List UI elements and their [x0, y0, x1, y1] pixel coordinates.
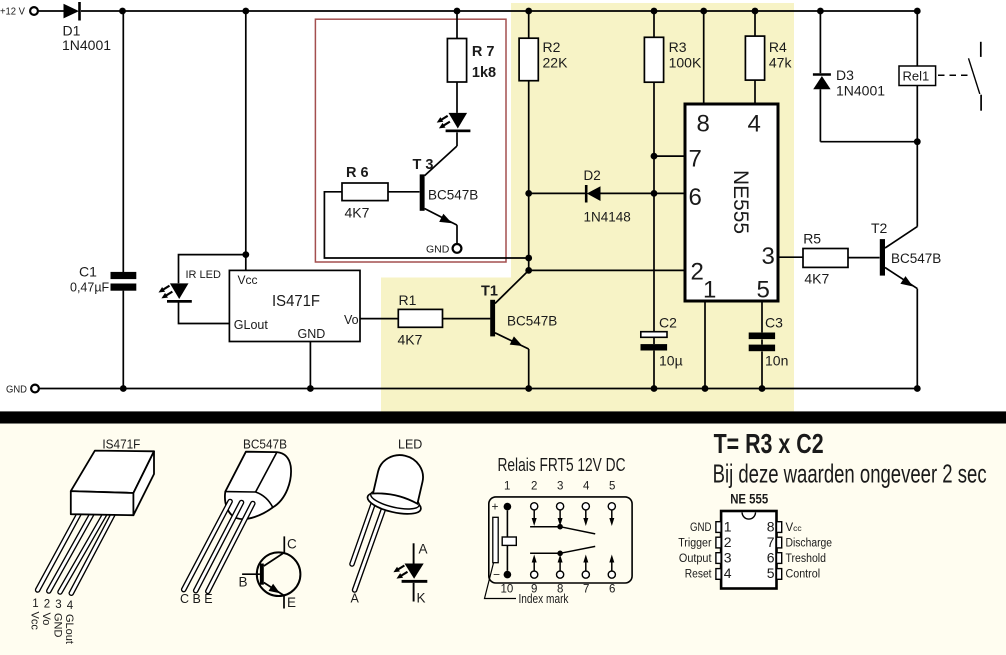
svg-text:4K7: 4K7	[398, 332, 423, 348]
svg-text:Relais FRT5 12V DC: Relais FRT5 12V DC	[498, 455, 626, 475]
svg-text:Treshold: Treshold	[786, 553, 827, 565]
svg-text:Bij deze waarden ongeveer 2 se: Bij deze waarden ongeveer 2 sec	[713, 459, 987, 489]
svg-text:C2: C2	[659, 315, 677, 331]
svg-text:GLout: GLout	[234, 318, 269, 332]
svg-text:C: C	[287, 537, 297, 552]
svg-text:4: 4	[724, 565, 732, 581]
svg-text:BC547B: BC547B	[891, 251, 941, 266]
svg-text:D3: D3	[836, 67, 854, 83]
svg-text:C1: C1	[79, 264, 97, 280]
svg-text:NE 555: NE 555	[730, 491, 768, 507]
svg-text:1: 1	[724, 518, 732, 534]
svg-text:BC547B: BC547B	[507, 314, 557, 329]
svg-text:3: 3	[557, 481, 563, 493]
svg-text:BC547B: BC547B	[428, 188, 478, 203]
svg-text:GND: GND	[6, 384, 27, 395]
svg-text:2: 2	[531, 481, 537, 493]
svg-text:−: −	[493, 568, 500, 582]
svg-text:BC547B: BC547B	[243, 438, 287, 452]
svg-text:Vcc: Vcc	[29, 612, 41, 631]
svg-text:Control: Control	[786, 569, 821, 581]
svg-text:Trigger: Trigger	[678, 538, 711, 550]
svg-text:Vcc: Vcc	[238, 273, 258, 287]
svg-text:3: 3	[55, 599, 61, 611]
svg-text:GND: GND	[426, 244, 450, 256]
svg-text:GND: GND	[52, 613, 64, 638]
svg-text:E: E	[287, 595, 296, 610]
svg-text:5: 5	[757, 277, 770, 304]
svg-text:1N4001: 1N4001	[62, 37, 111, 53]
svg-text:R3: R3	[669, 39, 687, 55]
svg-text:B: B	[239, 575, 248, 590]
svg-text:LED: LED	[398, 438, 422, 452]
svg-text:8: 8	[767, 518, 775, 534]
svg-text:2: 2	[44, 599, 50, 611]
svg-text:7: 7	[689, 146, 702, 173]
svg-text:IR LED: IR LED	[186, 269, 222, 281]
svg-text:R5: R5	[803, 231, 821, 247]
svg-text:NE555: NE555	[729, 170, 752, 234]
svg-text:7: 7	[767, 534, 775, 550]
svg-text:4: 4	[67, 600, 74, 612]
svg-text:1: 1	[504, 481, 510, 493]
svg-text:6: 6	[689, 184, 702, 211]
svg-text:22K: 22K	[543, 55, 569, 71]
svg-text:0,47µF: 0,47µF	[70, 281, 110, 295]
svg-text:10: 10	[501, 584, 514, 596]
svg-text:Index mark: Index mark	[519, 592, 570, 606]
svg-text:1k8: 1k8	[472, 65, 496, 81]
svg-text:R 6: R 6	[346, 165, 369, 181]
svg-text:4: 4	[748, 111, 761, 138]
svg-text:10µ: 10µ	[659, 353, 683, 369]
svg-text:GLout: GLout	[63, 614, 75, 644]
svg-text:C B E: C B E	[180, 592, 213, 606]
svg-text:8: 8	[697, 111, 710, 138]
svg-text:K: K	[417, 591, 426, 606]
svg-text:10n: 10n	[765, 353, 788, 369]
svg-text:T= R3 x C2: T= R3 x C2	[714, 428, 824, 459]
svg-text:Vcc: Vcc	[786, 522, 803, 534]
svg-text:A: A	[419, 542, 428, 557]
svg-text:100K: 100K	[669, 55, 702, 71]
svg-text:1N4001: 1N4001	[836, 83, 885, 99]
svg-text:Discharge: Discharge	[786, 538, 833, 550]
svg-text:Reset: Reset	[685, 569, 712, 581]
svg-text:Vo: Vo	[344, 313, 359, 327]
svg-text:Output: Output	[679, 553, 712, 565]
svg-text:A: A	[351, 592, 360, 606]
svg-text:GND: GND	[690, 522, 712, 534]
svg-text:R4: R4	[769, 39, 787, 55]
svg-text:+: +	[492, 500, 499, 514]
svg-text:6: 6	[609, 584, 615, 596]
svg-text:3: 3	[724, 549, 732, 565]
svg-text:1: 1	[703, 277, 716, 304]
svg-text:4: 4	[583, 481, 590, 493]
svg-text:R1: R1	[399, 292, 417, 308]
svg-text:R2: R2	[543, 39, 561, 55]
svg-text:T 3: T 3	[413, 157, 434, 173]
svg-text:IS471F: IS471F	[272, 293, 320, 310]
svg-text:7: 7	[583, 584, 589, 596]
svg-text:GND: GND	[298, 327, 326, 341]
svg-text:4K7: 4K7	[345, 205, 370, 221]
svg-text:4K7: 4K7	[804, 271, 829, 287]
svg-text:1N4148: 1N4148	[584, 210, 631, 225]
svg-text:3: 3	[762, 243, 775, 270]
svg-text:D2: D2	[584, 168, 601, 183]
svg-text:Rel1: Rel1	[903, 69, 930, 84]
svg-text:5: 5	[767, 565, 775, 581]
svg-text:2: 2	[724, 534, 732, 550]
svg-text:6: 6	[767, 549, 775, 565]
svg-text:Vo: Vo	[40, 613, 52, 626]
svg-text:IS471F: IS471F	[102, 438, 140, 452]
svg-text:5: 5	[609, 481, 615, 493]
svg-text:2: 2	[691, 259, 704, 286]
svg-text:T2: T2	[871, 220, 888, 236]
svg-text:T1: T1	[481, 284, 498, 300]
svg-text:R 7: R 7	[472, 44, 495, 60]
svg-text:47k: 47k	[769, 55, 793, 71]
svg-text:C3: C3	[765, 315, 783, 331]
svg-text:+12 V: +12 V	[0, 7, 25, 18]
svg-text:1: 1	[32, 598, 38, 610]
